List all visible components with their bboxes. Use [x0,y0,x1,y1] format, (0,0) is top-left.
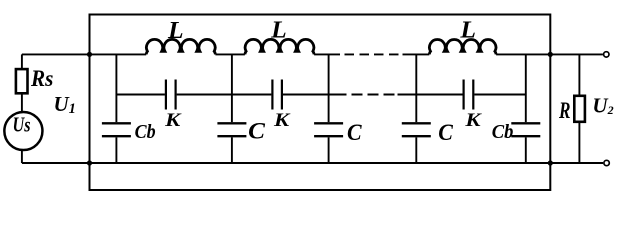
svg-text:L: L [459,18,476,44]
svg-text:C: C [438,120,453,145]
svg-text:Us: Us [13,113,31,137]
svg-text:Rs: Rs [30,66,53,92]
svg-text:C: C [248,118,266,143]
svg-text:C: C [347,120,362,145]
svg-text:Cb: Cb [135,121,156,143]
svg-text:K: K [164,110,182,131]
svg-text:K: K [273,110,291,131]
svg-text:K: K [464,110,482,131]
svg-text:Cb: Cb [492,121,514,143]
svg-text:L: L [270,18,287,44]
svg-text:R: R [558,98,570,124]
svg-text:L: L [167,18,184,44]
